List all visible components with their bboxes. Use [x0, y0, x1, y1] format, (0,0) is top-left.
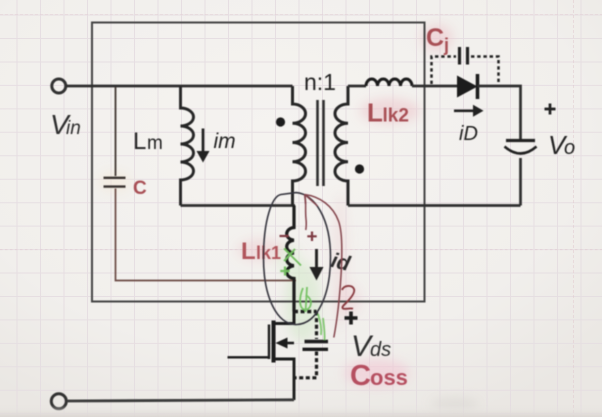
highlighter blushes: [98, 24, 479, 411]
arrow iD: [454, 105, 484, 117]
svg-text:ds: ds: [370, 339, 391, 361]
label Lm: [133, 128, 163, 155]
wire diode to output: [478, 86, 521, 140]
annotation green streaks: [318, 314, 325, 340]
label Llk2: [367, 98, 409, 128]
label Llk1: [241, 238, 281, 265]
svg-text:C: C: [350, 360, 371, 392]
label Vin: [50, 109, 81, 140]
svg-text:L: L: [367, 98, 383, 128]
label Vo: [548, 130, 575, 160]
arrow im: [197, 129, 210, 163]
label iD: [459, 123, 478, 145]
diode D: [457, 74, 478, 99]
wire C branch bottom: [116, 189, 297, 281]
wire Llk2 to diode: [412, 85, 457, 88]
wire secondary bottom rail: [348, 204, 521, 207]
wire output right side: [519, 158, 522, 206]
transformer core: [318, 100, 324, 186]
annotation red numeral 2: [342, 286, 354, 309]
svg-text:L: L: [241, 238, 256, 265]
svg-text:im: im: [214, 130, 236, 153]
plus sign green: [280, 267, 289, 276]
annotation green X on Llk1: [284, 249, 301, 266]
transformer T1 secondary winding: [335, 86, 348, 206]
svg-text:oss: oss: [370, 365, 408, 390]
plus sign Llk1: [307, 232, 316, 242]
svg-text:m: m: [147, 133, 163, 154]
label Cj: [426, 24, 449, 55]
transformer model box: [92, 23, 425, 302]
bottom shade: [0, 405, 602, 417]
svg-text:C: C: [133, 178, 147, 199]
wire bottom rail: [67, 400, 295, 401]
svg-text:in: in: [66, 118, 81, 139]
MOSFET body arrow: [276, 338, 288, 349]
annotation red arrow tick: [305, 195, 342, 338]
wire C branch down: [115, 87, 117, 176]
inductor Llk1: [287, 206, 294, 312]
polarity dot secondary: [355, 164, 364, 173]
label im: [214, 130, 236, 153]
label Vds: [351, 330, 391, 363]
wire primary bottom rail: [181, 204, 296, 207]
arrow id: [310, 249, 324, 281]
inductor Lm: [181, 86, 194, 206]
label id: [329, 249, 354, 276]
svg-text:iD: iD: [459, 123, 478, 145]
svg-text:o: o: [564, 137, 575, 159]
svg-text:j: j: [443, 35, 449, 55]
plus sign output: [545, 104, 556, 115]
minus sign Llk1: [280, 235, 289, 237]
polarity dot primary: [276, 117, 285, 126]
MOSFET Q1 drain dashes: [294, 310, 317, 313]
transformer T1 primary winding: [293, 86, 306, 206]
capacitor Cj dashed snubber: [432, 57, 499, 85]
svg-text:n:1: n:1: [304, 69, 336, 95]
MOSFET Q1: [228, 312, 295, 401]
capacitor Co output: [505, 141, 537, 154]
label n:1: [304, 69, 336, 95]
input terminal -: [51, 394, 66, 409]
input terminal +: [52, 79, 66, 93]
wire top rail: [66, 85, 293, 88]
label Coss: [350, 360, 408, 392]
svg-text:lk1: lk1: [256, 243, 281, 263]
svg-text:lk2: lk2: [383, 106, 409, 127]
plus sign Vds: [345, 312, 358, 325]
svg-text:C: C: [426, 24, 444, 52]
svg-text:L: L: [133, 128, 146, 155]
capacitor Coss dashed: [295, 312, 317, 378]
label C: [133, 178, 147, 199]
annotation green loop: [300, 287, 311, 312]
wire secondary top to Llk2: [348, 85, 366, 88]
annotation ellipse around Llk1: [264, 193, 331, 325]
capacitor C: [104, 178, 126, 187]
capacitor Cj plates: [460, 47, 468, 65]
inductor Llk2: [366, 79, 412, 86]
capacitor Coss plates: [303, 342, 329, 350]
